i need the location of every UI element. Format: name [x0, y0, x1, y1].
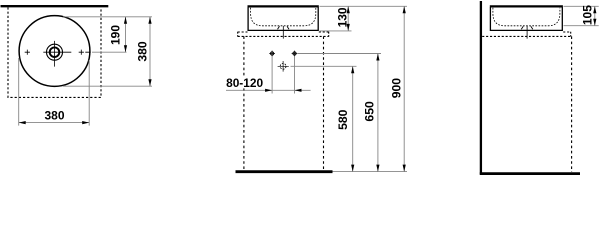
- dimension 580 line: [352, 66, 354, 171]
- svg-text:900: 900: [390, 78, 404, 99]
- extension line circle top: [63, 16, 152, 18]
- dimension 190 line: [125, 17, 127, 52]
- dimension 650 line: [377, 54, 379, 172]
- arrow 190 top: [124, 17, 127, 24]
- wall line (side): [480, 1, 482, 175]
- basin inner bowl dashed (front): [251, 8, 316, 26]
- dimension 80-120 line: [226, 89, 311, 91]
- centerline horizontal (plan): [43, 51, 90, 53]
- counter right end connector (side): [570, 32, 572, 37]
- extension basin bottom right (front): [320, 30, 352, 32]
- floor extension line: [333, 171, 408, 173]
- svg-text:130: 130: [335, 7, 349, 27]
- basin inner bowl dashed (side): [493, 8, 560, 26]
- extension line fixing left down: [271, 57, 273, 94]
- tap mark + left (plan): [25, 50, 30, 55]
- leader drain row to 580: [291, 65, 357, 67]
- svg-text:380: 380: [136, 41, 150, 62]
- cabinet right edge (front): [323, 36, 325, 170]
- arrow 380h right: [82, 121, 89, 124]
- extension basin top right (side): [564, 5, 599, 7]
- arrow 80-120 right (points left): [295, 89, 302, 92]
- drain outer circle: [47, 44, 63, 60]
- centerline extension to 190 dim: [92, 51, 127, 53]
- counter right end connector (front): [328, 32, 330, 37]
- extension line circle left-bottom: [18, 58, 20, 126]
- drain inner circle: [50, 47, 60, 57]
- extension bowl depth (side): [564, 25, 599, 27]
- dimension 380 vertical line: [149, 17, 151, 86]
- leader fixing row to 650: [298, 53, 381, 55]
- arrow 900 top: [403, 6, 406, 13]
- dimension 105 line: [594, 6, 596, 25]
- svg-text:190: 190: [109, 25, 123, 45]
- tap mark + right (plan): [79, 50, 84, 55]
- basin top edge (front): [248, 5, 319, 7]
- svg-text:80-120: 80-120: [226, 76, 263, 90]
- basin outline (front): [248, 7, 318, 30]
- svg-text:580: 580: [336, 109, 350, 130]
- label 80-120 backing: [226, 77, 265, 88]
- wall line (top, plan): [1, 5, 109, 7]
- fixing point left: [269, 51, 275, 57]
- drain symbol (front): [278, 61, 289, 72]
- arrow 105 top: [593, 6, 596, 13]
- drain marks (front): [278, 26, 290, 29]
- extension line circle bottom: [63, 85, 152, 87]
- svg-text:650: 650: [362, 101, 376, 122]
- counter hidden lower edge (side): [482, 35, 571, 37]
- basin top edge (side): [490, 5, 563, 7]
- arrow 80-120 left (points right): [265, 89, 272, 92]
- arrow 130 bottom: [347, 24, 350, 31]
- arrow 580 top: [351, 66, 354, 73]
- arrow 380h left: [19, 121, 26, 124]
- counter hidden upper edge right stub (side): [563, 31, 571, 33]
- svg-text:380: 380: [44, 109, 64, 123]
- fixing point right: [292, 51, 298, 57]
- basin outline (side): [490, 7, 562, 30]
- floor line (front): [236, 170, 333, 173]
- arrow 580 bottom: [351, 165, 354, 172]
- dimension 900 line: [403, 6, 405, 171]
- dimension 130 line: [347, 6, 349, 31]
- centerline vertical (drain crosshair): [54, 41, 56, 67]
- extension basin top right (front): [320, 5, 408, 7]
- arrow 900 bottom: [403, 165, 406, 172]
- floor line (side): [480, 172, 580, 175]
- counter hidden lower edge (front): [238, 35, 329, 37]
- centerline below drain (side): [526, 26, 528, 39]
- counter hidden upper edge left (front): [238, 31, 248, 33]
- counter left end connector (front): [237, 32, 239, 37]
- cabinet left edge (front): [243, 36, 245, 170]
- arrow 130 top: [347, 6, 350, 13]
- cabinet front edge (side): [571, 36, 573, 172]
- drain marks (side): [521, 26, 533, 29]
- centerline below drain (front): [282, 26, 284, 39]
- arrow 650 bottom: [376, 165, 379, 172]
- arrow 380v bottom: [148, 79, 151, 86]
- arrow 190 bottom: [124, 45, 127, 52]
- basin circle: [19, 16, 90, 87]
- arrow 105 bottom: [593, 19, 596, 26]
- svg-text:105: 105: [581, 5, 595, 25]
- arrow 380v top: [148, 17, 151, 24]
- extension line circle right-bottom: [88, 60, 90, 126]
- arrow 650 top: [376, 54, 379, 61]
- dimension 380 bottom line: [19, 122, 90, 124]
- extension line fixing right down: [294, 57, 296, 94]
- counter hidden upper edge right (front): [319, 31, 329, 33]
- counter square (dashed, plan): [8, 7, 101, 97]
